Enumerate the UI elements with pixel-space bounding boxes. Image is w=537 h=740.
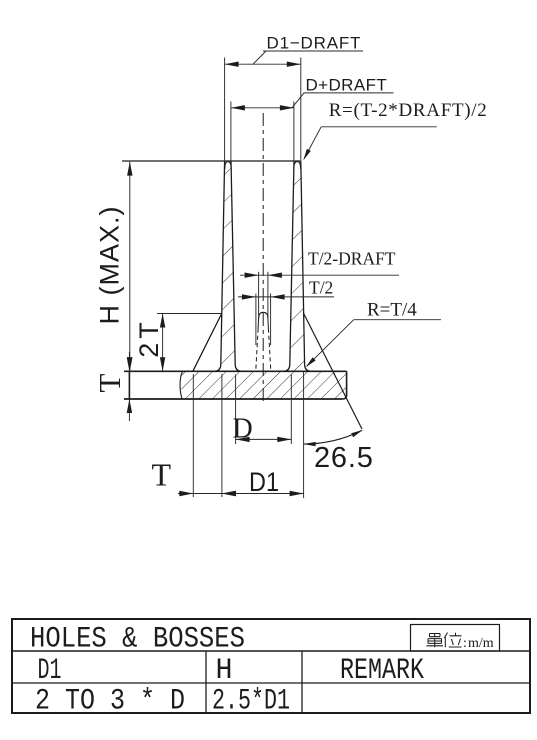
svg-text:R=T/4: R=T/4 <box>367 300 417 321</box>
svg-text:H (MAX.): H (MAX.) <box>95 206 125 325</box>
svg-text::: : <box>463 636 467 651</box>
svg-text:T/2: T/2 <box>309 278 333 298</box>
svg-text:D: D <box>233 414 253 445</box>
svg-text:2T: 2T <box>134 318 164 358</box>
svg-text:H: H <box>216 653 233 687</box>
svg-text:T: T <box>152 457 172 493</box>
svg-text:D1−DRAFT: D1−DRAFT <box>267 34 362 53</box>
svg-text:2 TO 3 * D: 2 TO 3 * D <box>35 684 185 718</box>
svg-text:m/m: m/m <box>468 636 494 651</box>
svg-text:D1: D1 <box>38 653 62 687</box>
svg-text:REMARK: REMARK <box>340 653 424 687</box>
svg-text:R=(T-2*DRAFT)/2: R=(T-2*DRAFT)/2 <box>329 100 488 121</box>
svg-text:D+DRAFT: D+DRAFT <box>306 75 388 94</box>
svg-text:D1: D1 <box>249 467 279 497</box>
svg-text:26.5: 26.5 <box>314 442 374 474</box>
svg-text:T/2-DRAFT: T/2-DRAFT <box>308 249 396 269</box>
svg-text:HOLES & BOSSES: HOLES & BOSSES <box>30 623 245 657</box>
svg-text:2.5*D1: 2.5*D1 <box>212 684 290 718</box>
svg-text:T: T <box>92 373 127 392</box>
